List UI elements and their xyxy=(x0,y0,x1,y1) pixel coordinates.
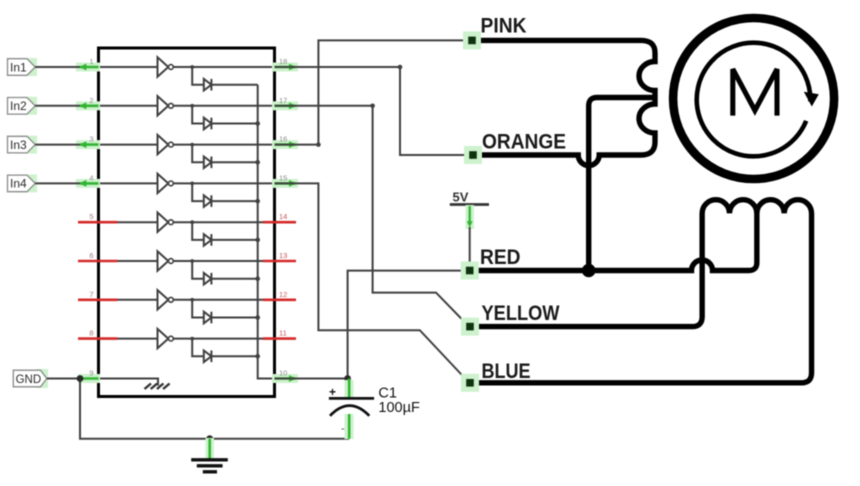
pin 7 xyxy=(78,290,118,300)
svg-text:12: 12 xyxy=(279,290,287,299)
motor M1 body xyxy=(673,18,834,179)
junction xyxy=(206,435,213,442)
svg-text:+: + xyxy=(329,385,336,399)
svg-text:18: 18 xyxy=(279,57,287,66)
inverter A6 xyxy=(158,251,174,270)
wire xyxy=(35,144,80,146)
bend point xyxy=(316,142,321,147)
wire xyxy=(99,105,275,107)
svg-text:11: 11 xyxy=(279,329,287,338)
svg-text:8: 8 xyxy=(89,329,93,338)
wire xyxy=(35,182,80,184)
inverter A4 xyxy=(158,174,174,193)
wire pin16 to PINK xyxy=(275,40,467,144)
wire xyxy=(192,222,258,240)
svg-text:GND: GND xyxy=(16,374,42,386)
wire xyxy=(35,66,80,68)
inverter A3 xyxy=(158,135,174,154)
wire GND to pin9 xyxy=(47,378,80,380)
svg-text:6: 6 xyxy=(89,251,93,260)
inverter A7 xyxy=(158,290,174,309)
svg-text:13: 13 xyxy=(279,251,287,260)
diode D1 xyxy=(204,79,212,91)
label C1 value xyxy=(378,386,420,416)
junction xyxy=(190,143,194,147)
pin 13 xyxy=(263,251,296,261)
junction xyxy=(255,199,260,204)
wire YELLOW motor winding L2 to BLUE xyxy=(470,200,812,383)
svg-text:BLUE: BLUE xyxy=(482,359,531,383)
pin 15 xyxy=(272,173,298,188)
wire xyxy=(99,221,275,223)
svg-text:7: 7 xyxy=(89,290,93,299)
pin 17 xyxy=(272,96,298,111)
junction xyxy=(255,315,260,320)
wire xyxy=(192,183,258,201)
diode D6 xyxy=(204,273,212,285)
svg-text:10: 10 xyxy=(279,369,287,378)
pin 14 xyxy=(263,212,296,222)
junction xyxy=(190,104,194,108)
node BLUE terminal xyxy=(461,374,479,392)
junction xyxy=(344,375,351,382)
IC internal ground symbol xyxy=(145,384,170,390)
wire pin15 to BLUE xyxy=(275,183,469,381)
diode D4 xyxy=(204,195,212,207)
svg-text:In2: In2 xyxy=(10,99,27,113)
wire pin10 to RED node xyxy=(275,271,467,379)
diode D5 xyxy=(204,234,212,246)
junction xyxy=(190,298,194,302)
node In3 label xyxy=(8,136,38,154)
node ORANGE terminal xyxy=(464,146,482,164)
wire 5V to RED xyxy=(466,205,475,267)
inverter A1 xyxy=(158,57,174,76)
bend point xyxy=(370,104,375,109)
wire RED net thick xyxy=(470,212,757,271)
wire xyxy=(99,299,275,301)
svg-text:-: - xyxy=(341,423,345,435)
inverter A2 xyxy=(158,96,174,115)
pin 2 xyxy=(76,96,100,111)
diode D7 xyxy=(204,312,212,324)
pin 4 xyxy=(76,173,100,188)
junction xyxy=(190,337,194,341)
svg-text:YELLOW: YELLOW xyxy=(482,301,561,325)
svg-text:15: 15 xyxy=(279,173,287,182)
node In2 label xyxy=(8,97,38,115)
wire pin17 to YELLOW xyxy=(275,106,469,326)
inverter A8 xyxy=(158,329,174,348)
pin 5 xyxy=(78,212,118,222)
junction xyxy=(255,238,260,243)
pin 3 xyxy=(76,135,100,150)
diode D8 xyxy=(204,351,212,363)
svg-text:RED: RED xyxy=(480,245,521,269)
svg-text:1: 1 xyxy=(89,57,93,66)
wire xyxy=(192,261,258,279)
junction xyxy=(190,182,194,186)
pin 1 xyxy=(76,57,100,72)
wire PINK and motor winding L1 to ORANGE xyxy=(472,40,655,165)
svg-text:9: 9 xyxy=(89,369,93,378)
ground symbol xyxy=(191,438,228,472)
wire xyxy=(99,338,275,340)
wire xyxy=(192,145,258,163)
junction xyxy=(190,65,194,69)
svg-text:In4: In4 xyxy=(10,177,27,191)
bend point xyxy=(398,65,403,70)
wire GND net bottom rail xyxy=(80,379,349,439)
pin 6 xyxy=(78,251,118,261)
node RED terminal xyxy=(461,262,479,280)
svg-text:5V: 5V xyxy=(453,190,469,205)
svg-text:16: 16 xyxy=(279,135,287,144)
junction xyxy=(255,276,260,281)
wire xyxy=(99,182,275,184)
node YELLOW terminal xyxy=(461,318,479,336)
wire xyxy=(99,260,275,262)
wire L1 center tap xyxy=(589,98,655,271)
diode D3 xyxy=(204,157,212,169)
wire pin9 internal xyxy=(99,379,159,386)
wire xyxy=(99,66,275,68)
pin 8 xyxy=(78,329,118,339)
svg-text:5: 5 xyxy=(89,212,93,221)
pin 9 xyxy=(78,369,100,384)
svg-text:ORANGE: ORANGE xyxy=(482,130,566,154)
svg-text:17: 17 xyxy=(279,96,287,105)
svg-text:4: 4 xyxy=(89,173,93,182)
svg-text:In3: In3 xyxy=(10,138,27,152)
inverter A5 xyxy=(158,213,174,232)
pin 16 xyxy=(272,135,298,150)
wire xyxy=(192,106,258,124)
IC U1 ULN2003 body xyxy=(99,48,275,397)
node COM rail pin10 xyxy=(258,85,275,379)
wire pin18 to ORANGE xyxy=(275,67,467,155)
power 5V symbol xyxy=(450,190,489,205)
pin 18 xyxy=(272,57,298,72)
junction xyxy=(190,259,194,263)
svg-text:3: 3 xyxy=(89,135,93,144)
diode D2 xyxy=(204,118,212,130)
wire xyxy=(99,144,275,146)
pin 12 xyxy=(263,290,296,300)
pin 11 xyxy=(263,329,296,339)
node GND label xyxy=(13,369,48,388)
junction xyxy=(255,354,260,359)
wire xyxy=(192,67,258,85)
junction xyxy=(190,220,194,224)
svg-text:2: 2 xyxy=(89,96,93,105)
node PINK terminal xyxy=(463,31,481,49)
junction xyxy=(77,375,84,382)
svg-text:100µF: 100µF xyxy=(378,400,420,416)
pin 10 xyxy=(272,369,298,384)
wire xyxy=(192,300,258,318)
svg-text:PINK: PINK xyxy=(481,14,527,38)
wire xyxy=(192,339,258,357)
capacitor C1 100uF xyxy=(329,379,374,440)
svg-text:14: 14 xyxy=(279,212,287,221)
junction xyxy=(255,160,260,165)
svg-text:In1: In1 xyxy=(10,60,27,74)
node In4 label xyxy=(8,174,38,192)
junction RED tap xyxy=(582,264,596,278)
junction xyxy=(255,121,260,126)
node In1 label xyxy=(8,58,38,76)
wire xyxy=(35,105,80,107)
